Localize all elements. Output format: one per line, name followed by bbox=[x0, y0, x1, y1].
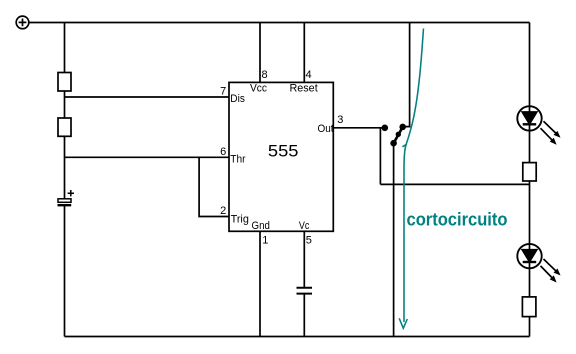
wire switch lower branch bbox=[393, 143, 395, 336]
wire out drop bbox=[379, 128, 381, 185]
wire switch upper branch bbox=[403, 23, 410, 127]
wire pin7 Dis bbox=[65, 96, 230, 98]
wire right rail segment 3 bbox=[529, 181, 531, 244]
LED D2 bbox=[517, 244, 559, 282]
resistor R4 bbox=[522, 297, 536, 317]
svg-text:2: 2 bbox=[220, 205, 226, 217]
wire pin5 segment 1 bbox=[303, 231, 305, 287]
svg-text:Vc: Vc bbox=[299, 220, 310, 232]
wire right rail segment 1 bbox=[529, 23, 531, 107]
wire top rail bbox=[29, 22, 530, 24]
switch S1 bbox=[382, 124, 407, 147]
resistor R3 bbox=[523, 163, 536, 181]
svg-text:Reset: Reset bbox=[290, 83, 318, 95]
svg-text:Dis: Dis bbox=[230, 93, 245, 105]
svg-text:Vcc: Vcc bbox=[250, 83, 267, 95]
svg-text:3: 3 bbox=[337, 114, 343, 126]
svg-text:555: 555 bbox=[268, 143, 299, 161]
LED D1 bbox=[517, 106, 559, 144]
wire left rail segment 4 bbox=[64, 206, 66, 337]
wire pin5 segment 2 bbox=[303, 295, 305, 337]
wire to LEDs horizontal bbox=[380, 183, 529, 185]
svg-text:Thr: Thr bbox=[230, 153, 246, 165]
svg-text:8: 8 bbox=[262, 69, 268, 81]
svg-text:Out: Out bbox=[318, 123, 334, 135]
cortocircuito arrow bbox=[399, 29, 423, 329]
wire bottom rail bbox=[65, 336, 530, 338]
wire right rail segment 5 bbox=[529, 317, 531, 337]
wire pin3 Out bbox=[333, 127, 385, 129]
resistor R1 bbox=[58, 73, 71, 92]
wire pin6 Thr bbox=[65, 156, 230, 158]
supply + terminal bbox=[16, 16, 29, 29]
op-amp/timer U1 555 body bbox=[229, 82, 333, 231]
svg-text:Trig: Trig bbox=[231, 214, 249, 226]
wire left rail segment 2 bbox=[64, 91, 66, 118]
wire pin2 Trig bbox=[199, 157, 229, 216]
wire left rail segment 1 bbox=[64, 23, 66, 73]
wire right rail segment 2 bbox=[529, 131, 531, 163]
wire right rail segment 4 bbox=[529, 268, 531, 297]
svg-text:7: 7 bbox=[220, 86, 226, 98]
wire pin4 bbox=[303, 23, 305, 83]
svg-text:6: 6 bbox=[220, 146, 226, 158]
capacitor C1 electrolytic bbox=[58, 190, 75, 205]
resistor R2 bbox=[58, 118, 71, 136]
wire pin1 Gnd bbox=[259, 231, 261, 336]
svg-text:4: 4 bbox=[306, 69, 312, 81]
svg-text:Gnd: Gnd bbox=[252, 220, 270, 232]
wire pin8 bbox=[259, 23, 261, 83]
capacitor C2 bbox=[297, 288, 313, 294]
svg-text:cortocircuito: cortocircuito bbox=[407, 209, 508, 230]
svg-text:5: 5 bbox=[306, 235, 312, 247]
svg-text:1: 1 bbox=[262, 235, 268, 247]
wire left rail segment 3 bbox=[64, 136, 66, 199]
